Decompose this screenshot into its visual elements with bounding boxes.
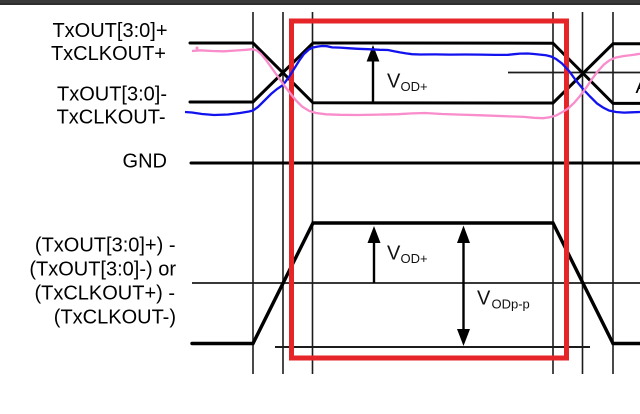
label VODp-p — [477, 288, 530, 312]
label VOD+ (top) — [387, 71, 428, 95]
pink dot blip — [196, 47, 199, 50]
vertical gridline x=253 — [252, 12, 254, 374]
TxOUT- envelope trace (low-high-low) — [190, 43, 640, 103]
pink scope trace — [192, 49, 640, 118]
svg-text:ODp-p: ODp-p — [492, 297, 530, 312]
vertical gridline x=312.5 — [312, 12, 314, 374]
svg-text:TxCLKOUT-: TxCLKOUT- — [57, 107, 166, 129]
VOD+ arrow (top waveform) — [367, 45, 380, 103]
svg-text:(TxCLKOUT+) -: (TxCLKOUT+) - — [34, 283, 175, 305]
TxOUT+ envelope trace (high-low-high) — [190, 43, 640, 103]
GND line — [191, 162, 640, 165]
top dark bar — [0, 0, 640, 5]
VODp-p double arrow — [457, 226, 470, 347]
svg-text:TxOUT[3:0]-: TxOUT[3:0]- — [57, 84, 167, 106]
svg-text:V: V — [477, 288, 491, 310]
top waveform mid reference line — [508, 72, 640, 74]
label VOD+ (bottom) — [387, 243, 428, 267]
red highlight rectangle — [292, 21, 567, 358]
svg-text:(TxOUT[3:0]-) or: (TxOUT[3:0]-) or — [29, 259, 176, 281]
svg-text:V: V — [387, 243, 401, 265]
vertical gridline x=582.5 — [582, 12, 584, 374]
svg-text:OD+: OD+ — [401, 251, 428, 266]
VOD+ arrow (bottom waveform) — [368, 226, 381, 283]
svg-text:TxOUT[3:0]+: TxOUT[3:0]+ — [52, 20, 167, 42]
svg-text:A: A — [636, 76, 640, 98]
vertical gridline x=283 — [282, 12, 284, 374]
svg-text:(TxOUT[3:0]+) -: (TxOUT[3:0]+) - — [35, 235, 176, 257]
svg-text:GND: GND — [123, 151, 167, 173]
svg-text:TxCLKOUT+: TxCLKOUT+ — [51, 43, 166, 65]
differential output waveform (bottom trapezoid) — [192, 223, 640, 344]
vertical gridline x=613 — [612, 12, 614, 374]
bottom waveform lower reference line — [275, 346, 590, 348]
bottom waveform zero reference line — [192, 282, 640, 284]
svg-text:OD+: OD+ — [401, 79, 428, 94]
svg-text:V: V — [387, 71, 401, 93]
vertical gridline x=553 — [552, 12, 554, 374]
blue scope trace — [185, 46, 640, 115]
svg-text:(TxCLKOUT-): (TxCLKOUT-) — [54, 307, 176, 329]
